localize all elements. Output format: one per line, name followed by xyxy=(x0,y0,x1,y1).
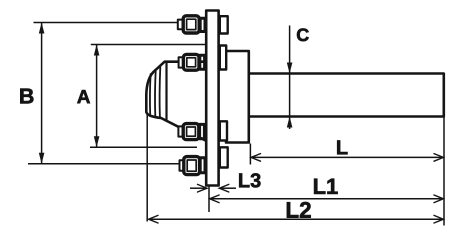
L3 right arrowhead (points left) xyxy=(219,184,229,192)
B arrow up xyxy=(39,23,45,34)
drum face edge xyxy=(165,62,167,121)
lug bolt 4: collar xyxy=(180,160,185,170)
lug bolt 3: nut xyxy=(183,124,199,140)
brake drum body xyxy=(146,62,206,141)
svg-text:L3: L3 xyxy=(238,170,261,192)
svg-text:C: C xyxy=(296,25,309,45)
lug bolt 3: washer xyxy=(200,124,205,138)
dimension B bottom extension line xyxy=(28,163,179,165)
grease cap contour 2 xyxy=(154,70,157,116)
svg-text:L: L xyxy=(336,137,348,159)
L2 left arrowhead xyxy=(149,215,159,223)
dimension L3 left arrow line xyxy=(190,187,206,189)
L left arrowhead xyxy=(251,154,261,162)
L1 left arrowhead xyxy=(210,195,220,203)
dimension C line xyxy=(289,26,291,130)
lug bolt 1 (top): collar xyxy=(178,16,205,175)
lug bolt 2: nut xyxy=(183,54,199,70)
svg-text:A: A xyxy=(77,87,91,108)
C arrow down xyxy=(287,63,293,74)
stud head S4 xyxy=(220,147,228,167)
L3 left arrowhead (points right) xyxy=(198,184,208,192)
stud head S3 xyxy=(220,121,227,140)
lug bolt 1: washer xyxy=(200,18,205,31)
svg-text:B: B xyxy=(19,84,35,108)
lug bolt 2: collar xyxy=(179,57,184,67)
lug bolt 1: nut xyxy=(183,16,199,33)
lug bolt 3: collar xyxy=(178,126,183,136)
dimension A top extension line xyxy=(91,44,206,46)
dimension A line xyxy=(96,45,98,147)
stud head S2 xyxy=(220,46,226,70)
B arrow down xyxy=(39,153,45,164)
hub barrel (bearing housing right of flange) xyxy=(226,51,249,143)
dimension L2 line xyxy=(149,218,444,220)
shaft (spindle) xyxy=(249,74,444,117)
L1 right arrowhead xyxy=(434,195,443,203)
dimension L1 line xyxy=(210,198,444,200)
dimension B line xyxy=(41,23,43,163)
L2 right arrowhead xyxy=(434,215,443,223)
grease cap contour 3 xyxy=(159,67,162,117)
C arrow up xyxy=(287,117,293,128)
arrowheads filled (A,B,C) xyxy=(39,23,293,164)
lug bolt 4: washer xyxy=(200,158,205,173)
A arrow up xyxy=(94,45,100,56)
svg-text:L1: L1 xyxy=(313,174,339,199)
dimension L line xyxy=(251,156,443,158)
lug bolt 2: washer xyxy=(200,55,205,69)
dimension L3 right arrow line xyxy=(220,187,236,189)
L left extension line xyxy=(249,144,251,165)
right extension line (shaft end) xyxy=(443,118,445,226)
A arrow down xyxy=(94,136,100,147)
lug bolt 4: nut xyxy=(184,157,200,175)
svg-text:L2: L2 xyxy=(285,198,311,223)
stud head S1 (right of flange) xyxy=(220,16,228,33)
arrowheads open (L dims) xyxy=(149,154,444,223)
wheel flange plate xyxy=(206,11,218,186)
grease cap contour 1 xyxy=(149,74,152,115)
dimension A bottom extension line xyxy=(90,146,197,148)
L1 left extension line xyxy=(208,187,210,213)
dimension B top extension line xyxy=(34,22,178,24)
L2 left extension line xyxy=(146,114,148,222)
L right arrowhead xyxy=(434,154,443,162)
